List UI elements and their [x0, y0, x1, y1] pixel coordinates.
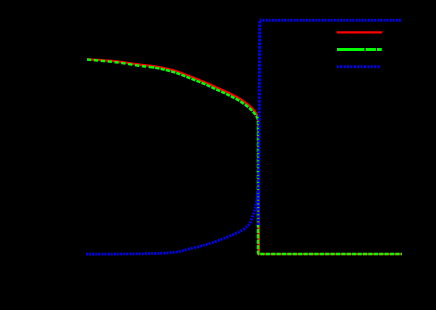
green dashed curve overlying red (early sparse-dash part)	[87, 60, 150, 68]
legend: green dashed sample	[337, 48, 382, 51]
blue vertical jump segment	[258, 22, 259, 226]
legend: blue dotted sample	[337, 65, 381, 68]
green dashed curve overlying red (main part)	[150, 67, 402, 254]
blue top plateau line	[260, 19, 403, 22]
legend: red solid sample	[337, 31, 383, 33]
blue dotted curve: rises then jumps to one	[86, 192, 258, 254]
red solid curve: order parameter, falls then jumps to zero	[87, 59, 402, 254]
